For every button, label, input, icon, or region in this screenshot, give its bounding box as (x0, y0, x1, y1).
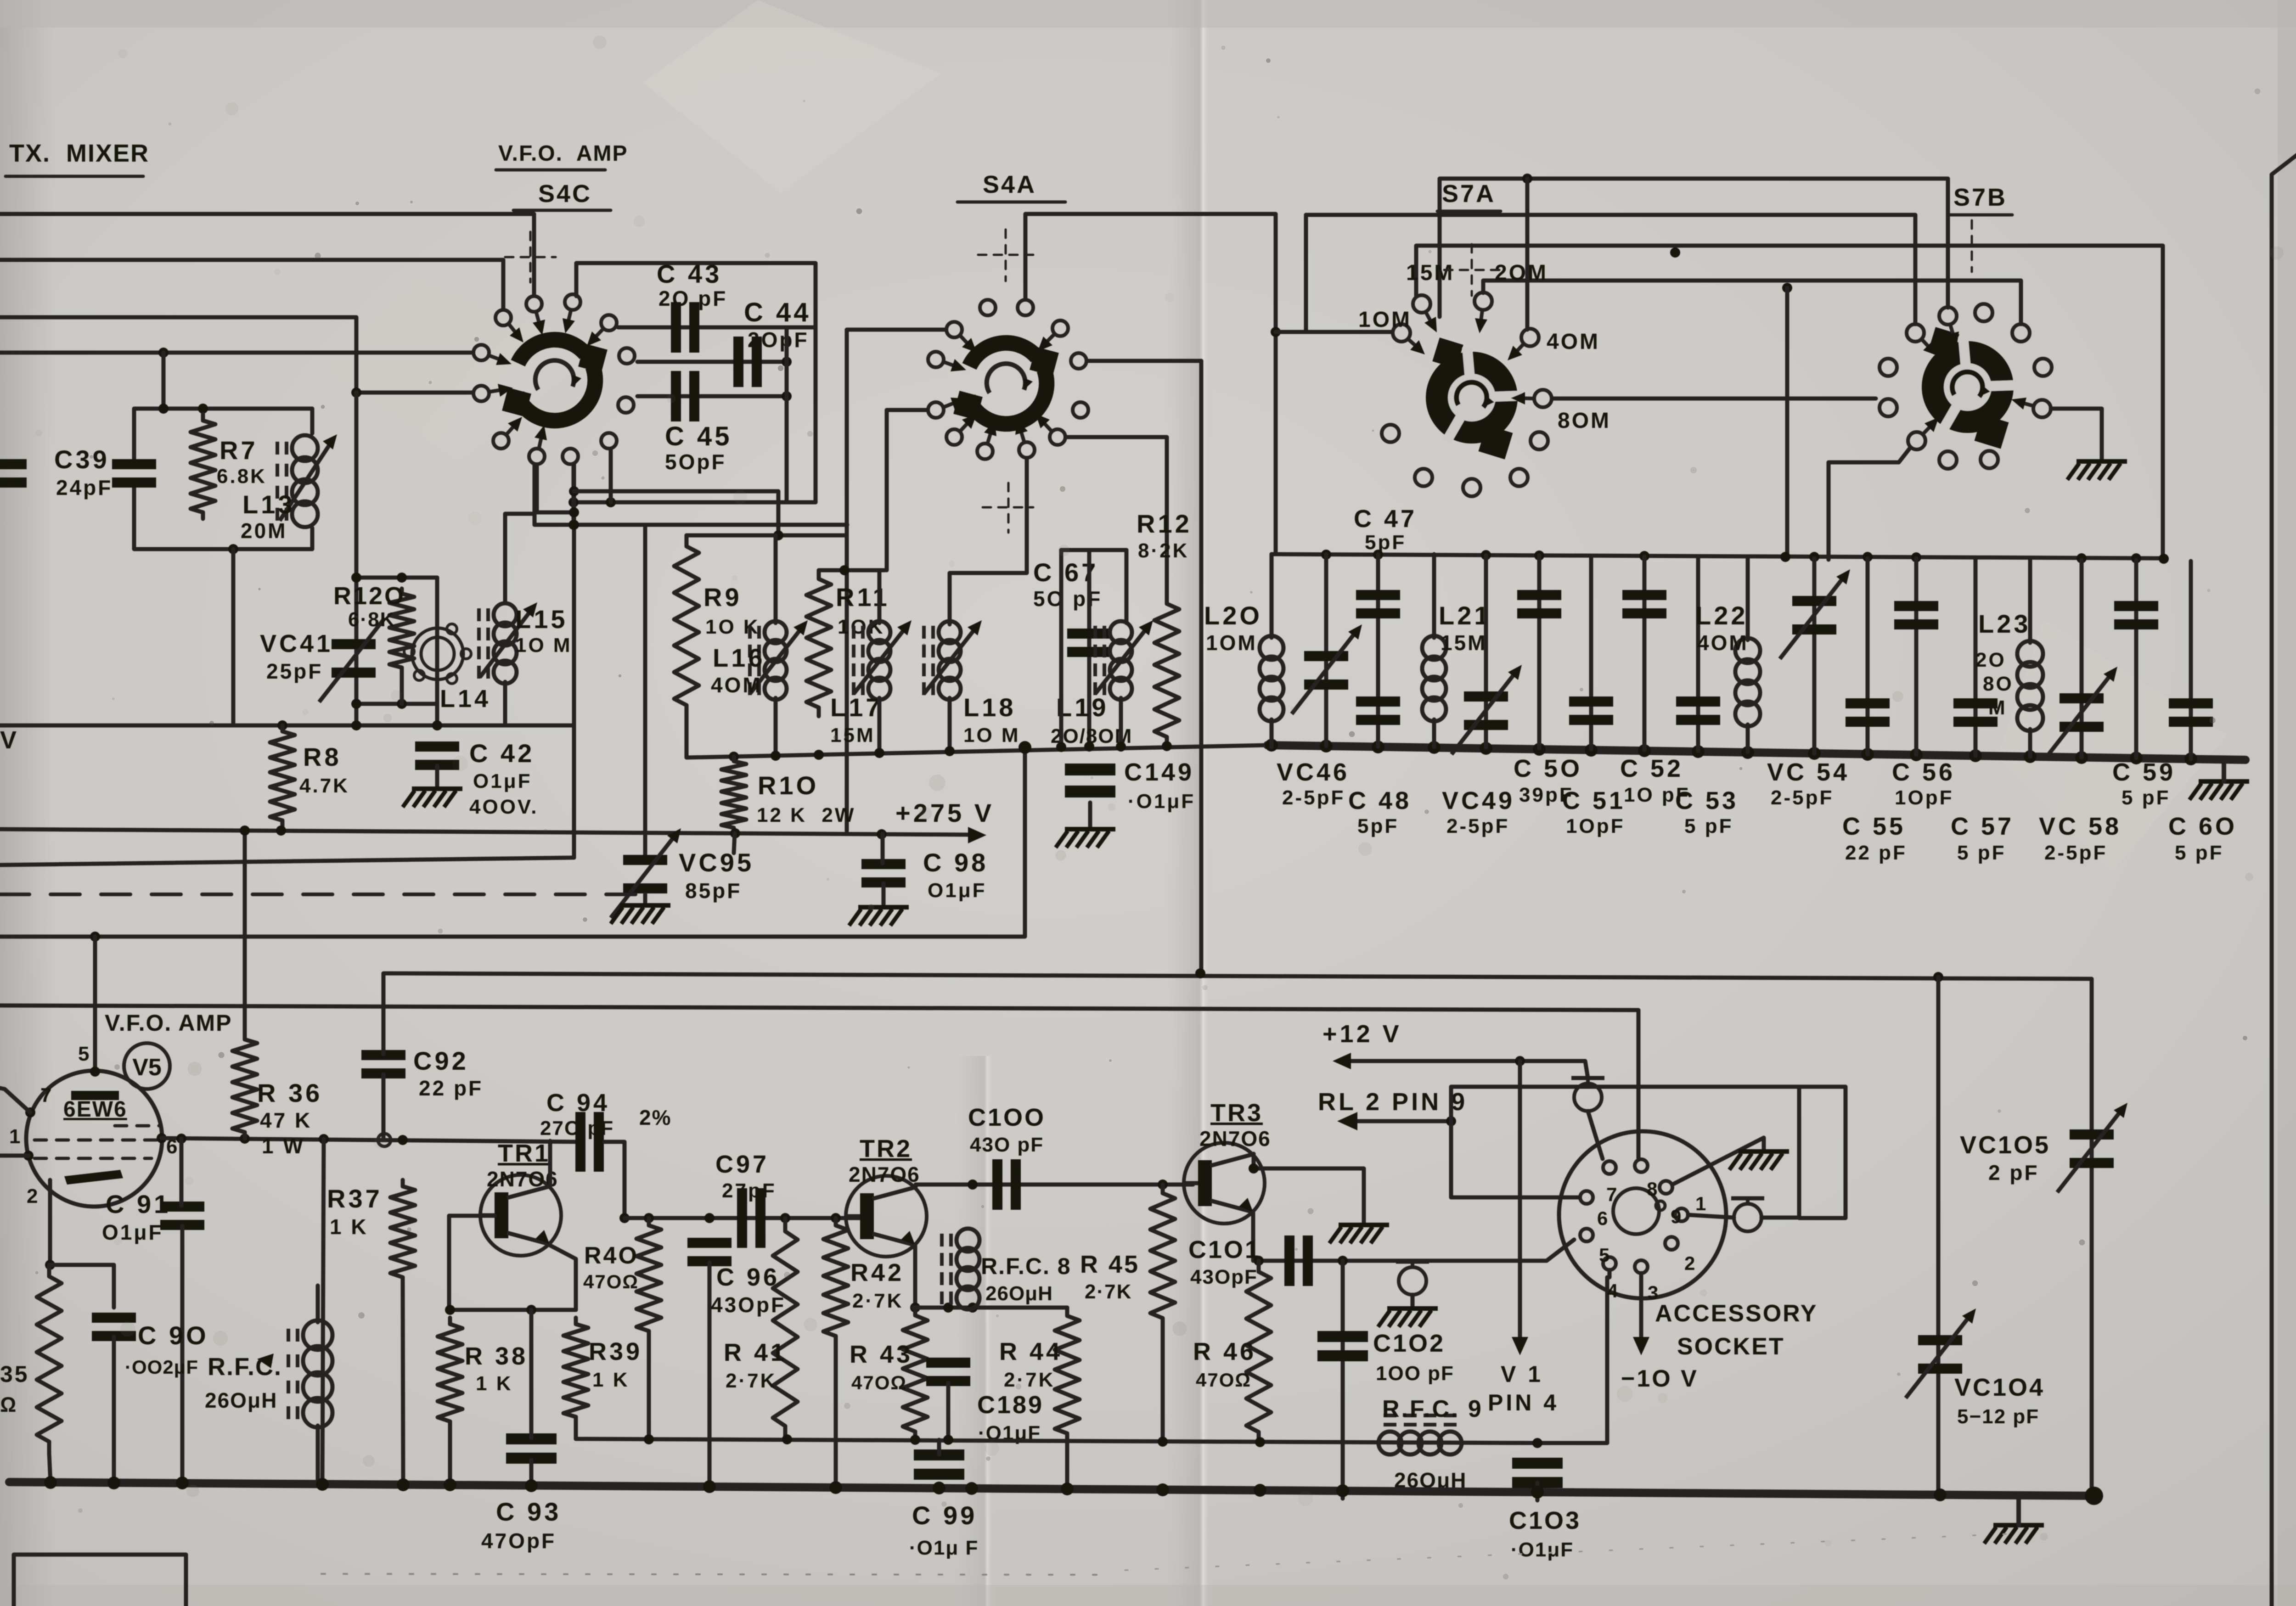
inductor L19 (1095, 620, 1153, 700)
wire S7B gnd spur (2051, 409, 2102, 461)
svg-text:R.F.C. 9: R.F.C. 9 (1382, 1396, 1483, 1422)
wire VC54 leg (1812, 558, 1817, 753)
capacitor C94 (575, 1112, 604, 1172)
wire to S4C left contact (0, 351, 471, 355)
svg-text:4OM: 4OM (1547, 330, 1600, 354)
junction bottom bus (703, 1480, 716, 1493)
svg-text:R42: R42 (850, 1259, 904, 1286)
wire C67 leg (1087, 550, 1092, 746)
junction 1250/1116 (569, 507, 579, 517)
resistor R9 (674, 535, 699, 716)
svg-text:5−12 pF: 5−12 pF (1957, 1405, 2039, 1428)
wire pin3 drop (1639, 1273, 1643, 1345)
wire inductor L21 top (1432, 554, 1436, 638)
svg-text:R.F.C. 8: R.F.C. 8 (981, 1253, 1071, 1279)
svg-text:L18: L18 (963, 693, 1016, 722)
ground under C149 (1056, 829, 1115, 848)
svg-text:·O1μF: ·O1μF (1511, 1539, 1574, 1561)
svg-text:C1O3: C1O3 (1509, 1507, 1581, 1534)
wire long vertical S4A-TR (1199, 361, 1204, 973)
resistor R44 (1055, 1308, 1080, 1442)
resistor R41 (773, 1218, 798, 1439)
tube V5 grid dashes (115, 1124, 161, 1128)
wire bottom bus (9, 1482, 2094, 1496)
svg-text:C 44: C 44 (744, 298, 811, 327)
svg-text:V.F.O. AMP: V.F.O. AMP (498, 141, 628, 166)
capacitor C42 (415, 741, 459, 770)
svg-text:85pF: 85pF (685, 879, 742, 903)
svg-text:C 55: C 55 (1842, 813, 1906, 840)
svg-text:15M: 15M (1441, 631, 1487, 655)
wire pin2 node right (50, 1265, 114, 1308)
junction R11 bus (839, 565, 850, 575)
svg-text:6: 6 (1597, 1207, 1609, 1229)
ground bead pin5 (1378, 1308, 1438, 1327)
wire bead to pin7 (1588, 1111, 1603, 1159)
svg-text:C 51: C 51 (1562, 787, 1626, 814)
svg-text:2-5pF: 2-5pF (1771, 786, 1834, 809)
capacitor C44 (733, 337, 762, 387)
junction C189 top (943, 1303, 953, 1313)
socket pin 7 (1603, 1161, 1616, 1174)
wire bead1 link (1761, 1216, 1799, 1220)
svg-text:TR2: TR2 (860, 1135, 912, 1162)
wire C50 leg (1537, 556, 1542, 748)
capacitor C99 (914, 1449, 964, 1480)
wire interstage rail (625, 1216, 862, 1220)
registration cross S7B (1945, 245, 2000, 247)
wire C189 down (946, 1383, 951, 1439)
arrow +275V (968, 827, 986, 843)
transistor TR1 2N706 (480, 1175, 561, 1256)
svg-text:2·7K: 2·7K (1004, 1369, 1055, 1391)
svg-text:1 K: 1 K (330, 1215, 368, 1239)
wire pin7 lead (0, 1088, 30, 1112)
wire L18 bottom (948, 698, 952, 749)
svg-text:L14: L14 (440, 685, 491, 713)
capacitor C103 (1512, 1458, 1563, 1488)
inductor L13 (277, 434, 337, 527)
svg-text:1OM: 1OM (1206, 631, 1257, 655)
capacitor C39 (112, 459, 156, 488)
svg-text:C 94: C 94 (546, 1089, 610, 1117)
svg-text:2-5pF: 2-5pF (1282, 786, 1345, 809)
svg-text:V 1: V 1 (1501, 1361, 1543, 1387)
junction rail R40 (644, 1434, 654, 1444)
junction box bottom a (568, 497, 579, 507)
svg-text:C189: C189 (977, 1391, 1044, 1419)
svg-text:R 44: R 44 (999, 1338, 1063, 1365)
junction bottom bus (107, 1477, 120, 1489)
svg-text:43O pF: 43O pF (970, 1134, 1044, 1156)
wire down to R120 box (355, 393, 359, 725)
junction bus C42 (432, 720, 442, 730)
socket pin 3 (1635, 1260, 1648, 1273)
svg-text:5 pF: 5 pF (2175, 842, 2223, 864)
wire C42 ground stub (435, 766, 439, 789)
wire C90 down (112, 1337, 116, 1483)
wire TR1 base rail (449, 1214, 495, 1218)
wire VC95 gnd stub (643, 894, 647, 905)
svg-text:5 pF: 5 pF (2122, 786, 2170, 809)
svg-text:7: 7 (40, 1084, 53, 1106)
svg-text:C39: C39 (54, 445, 110, 474)
inductor L20 (1260, 636, 1283, 721)
svg-text:L16: L16 (713, 643, 765, 672)
svg-text:2-5pF: 2-5pF (2044, 842, 2107, 864)
junction left bus (158, 348, 169, 358)
capacitor C52 (1622, 590, 1666, 618)
registration cross S4A (978, 254, 1033, 256)
junction bottom bus (1336, 1484, 1349, 1497)
wire RL2 PIN9 (1355, 1119, 1451, 1123)
underline TX. MIXER (6, 175, 143, 178)
svg-text:47OpF: 47OpF (481, 1529, 556, 1553)
wire inductor L22 top (1746, 556, 1750, 640)
wire S7B low out (1829, 448, 1910, 560)
junction rail2037 pin5 (90, 932, 100, 942)
svg-text:5: 5 (1599, 1244, 1611, 1266)
socket pin 1 (1675, 1208, 1688, 1221)
junction R10 bottom (730, 828, 740, 838)
svg-text:C 59: C 59 (2112, 758, 2176, 786)
wire S7A-S7B top1 (1440, 179, 1948, 317)
junction C94 foot (619, 1213, 630, 1223)
svg-text:5 pF: 5 pF (1957, 842, 2006, 864)
junction bank bus (874, 748, 884, 758)
junction C98 top (877, 829, 887, 839)
junction +12V drop (1515, 1056, 1525, 1066)
R.F.C.7 arrow (257, 1353, 274, 1368)
svg-text:1 W: 1 W (262, 1134, 305, 1158)
arrow RL2 PIN9 (1337, 1112, 1357, 1130)
resistor R36 (232, 1033, 257, 1139)
capacitor at left edge (0, 459, 27, 488)
R.F.C.8 coil (942, 1229, 979, 1309)
wire L19 tank top (1061, 548, 1126, 552)
svg-text:5OpF: 5OpF (665, 450, 726, 474)
wire C51 leg (1589, 556, 1593, 749)
svg-text:22 pF: 22 pF (1845, 842, 1907, 864)
resistor R12 (1154, 595, 1179, 746)
resistor R39 (563, 1318, 588, 1423)
svg-text:C 57: C 57 (1951, 813, 2014, 840)
svg-text:R39: R39 (589, 1338, 642, 1365)
feedthrough bead pin1 (1731, 1198, 1764, 1231)
socket pin 9 (1660, 1181, 1672, 1194)
junction bank bus (1116, 741, 1126, 752)
variable capacitor VC105 (2057, 1103, 2127, 1192)
underline S4A (957, 201, 1065, 204)
svg-text:L15: L15 (515, 605, 568, 634)
svg-text:47OΩ: 47OΩ (851, 1372, 907, 1393)
accessory socket key (1613, 1188, 1665, 1234)
registration cross S7B v (1971, 220, 1973, 272)
inductor L18 (924, 620, 982, 700)
junction filter bottom bus (1480, 742, 1492, 755)
wire C47 C48 leg (1376, 554, 1380, 747)
junction RFC8 tap (968, 1179, 978, 1190)
junction filter bottom bus (1969, 749, 1982, 762)
svg-text:VC46: VC46 (1277, 758, 1350, 786)
resistor R38 (438, 1318, 462, 1428)
svg-text:6·8K: 6·8K (348, 608, 395, 631)
svg-text:8: 8 (1647, 1178, 1659, 1200)
capacitor C102 (1317, 1331, 1368, 1361)
junction rail2120 a (1195, 968, 1205, 978)
junction R43 top (910, 1303, 920, 1313)
wire S7A left drop (1304, 215, 1308, 332)
wire C56 leg (1914, 558, 1919, 755)
svg-text:26OμH: 26OμH (985, 1282, 1053, 1305)
wire rail y2037 (0, 747, 1025, 937)
wire gnd stub bus (2016, 1498, 2021, 1525)
wire stub to R7 box (162, 353, 166, 409)
svg-text:R7: R7 (219, 436, 258, 465)
ground under C42 (403, 789, 462, 807)
junction box top b (198, 404, 208, 414)
svg-text:2: 2 (27, 1185, 39, 1207)
svg-text:25pF: 25pF (266, 659, 323, 683)
wire S7A-S7B top2 (1306, 215, 1915, 324)
svg-text:2·7K: 2·7K (852, 1290, 903, 1312)
wire R36 riser (243, 831, 247, 1033)
junction filter bottom bus (1428, 741, 1441, 754)
junction RL2 vert (1446, 1116, 1456, 1126)
wire inductor L23 bot (2028, 729, 2032, 757)
underline S7B (1949, 213, 2012, 217)
ground TR3 (1329, 1225, 1389, 1243)
resistor R37 (390, 1180, 415, 1283)
wire L14 leg (435, 578, 439, 725)
wire L15 bottom (503, 682, 507, 725)
junction bottom bus (525, 1479, 538, 1492)
resistor R46 (1246, 1261, 1271, 1443)
resistor R8 (270, 725, 295, 826)
junction C92 circle (378, 1134, 391, 1146)
underline S4C (513, 209, 611, 212)
junction 1250/1070 (569, 486, 579, 496)
feedthrough bead pin5 (1396, 1262, 1429, 1295)
capacitor C47 (1356, 590, 1400, 618)
wire C45 row (637, 394, 787, 399)
coil former L14 (404, 624, 471, 684)
registration cross S7A v (1471, 244, 1473, 296)
svg-text:2N7O6: 2N7O6 (849, 1162, 920, 1186)
capacitor C96 (687, 1238, 732, 1266)
junction box top a (158, 404, 169, 414)
wire inductor L20 bot (1270, 719, 1274, 747)
svg-text:C92: C92 (413, 1046, 469, 1075)
svg-text:12 K 2W: 12 K 2W (757, 804, 855, 826)
svg-text:C 42: C 42 (469, 739, 535, 768)
junction x705 tap (319, 1134, 329, 1144)
junction bottom bus (44, 1476, 57, 1489)
junction R120 top (397, 573, 407, 583)
svg-text:C1O2: C1O2 (1373, 1330, 1445, 1357)
registration cross S4A lowv (1007, 483, 1010, 533)
junction C45 right (782, 391, 792, 401)
svg-text:C 6O: C 6O (2168, 813, 2237, 840)
junction C93 top (526, 1305, 536, 1315)
svg-text:S7A: S7A (1442, 180, 1496, 208)
wire pin9 gnd (1672, 1138, 1764, 1185)
junction R36 plate (240, 825, 250, 836)
wire box bottom inner (571, 500, 816, 505)
svg-text:47OΩ: 47OΩ (583, 1271, 639, 1292)
svg-text:VC 54: VC 54 (1767, 758, 1850, 786)
wire heater line (0, 858, 574, 865)
registration cross S4A low (983, 506, 1033, 509)
wire C99 top (937, 1440, 941, 1454)
wire S4A right to L18 (950, 459, 1027, 624)
wire RFC7 bottom (316, 1426, 320, 1484)
svg-text:2·7K: 2·7K (726, 1370, 777, 1392)
capacitor C100 (992, 1159, 1021, 1210)
svg-text:4OOV.: 4OOV. (469, 796, 538, 818)
junction filter top bus (1639, 551, 1649, 561)
junction top1 (1522, 174, 1532, 184)
svg-text:RL 2 PIN 9: RL 2 PIN 9 (1318, 1088, 1468, 1116)
wire contact drop a (572, 465, 576, 525)
svg-text:C 93: C 93 (496, 1497, 561, 1526)
svg-text:R12O: R12O (333, 582, 405, 610)
junction filter top bus (1534, 550, 1544, 561)
R.F.C.7 coil (288, 1320, 332, 1427)
wire R42 bottom (834, 1343, 838, 1491)
wire R120 box top (356, 576, 437, 580)
socket pin 4 (1603, 1257, 1616, 1270)
capacitor C93 (506, 1433, 557, 1464)
resistor R43 (903, 1308, 928, 1439)
wire box top C43 (576, 263, 816, 502)
wire R35 bottom (49, 1453, 51, 1482)
junction pin2 node (45, 1260, 55, 1270)
ground under VC95 (611, 905, 670, 924)
junction bottom bus (176, 1477, 189, 1489)
capacitor C57 (1953, 698, 1998, 727)
wire C53 leg (1696, 557, 1700, 751)
svg-text:4OM: 4OM (1697, 631, 1749, 655)
junction R9 bus (773, 530, 783, 540)
wire emitter rail (449, 1308, 576, 1312)
rotary switch S4A wafer (928, 300, 1088, 459)
junction filter bottom bus (1692, 745, 1705, 758)
junction bank bus (1056, 742, 1066, 752)
svg-text:4OM: 4OM (711, 673, 762, 697)
svg-text:R11: R11 (836, 583, 890, 612)
junction y627 (1782, 283, 1792, 293)
svg-text:1: 1 (9, 1125, 22, 1148)
inductor L16 (750, 620, 808, 700)
junction C102 tap (1338, 1256, 1348, 1266)
junction filter top bus (1481, 550, 1491, 560)
wire R37 bottom (403, 1283, 403, 1484)
svg-text:V.F.O. AMP: V.F.O. AMP (105, 1010, 232, 1036)
ground bottom bus (1984, 1525, 2044, 1544)
svg-text:·OO2μF: ·OO2μF (125, 1356, 198, 1378)
junction box bottom (228, 544, 238, 554)
wire C94 right down (604, 1142, 625, 1218)
wire inductor L22 bot (1746, 724, 1750, 752)
svg-text:R 46: R 46 (1193, 1338, 1256, 1365)
svg-text:SOCKET: SOCKET (1677, 1333, 1785, 1360)
svg-text:V5: V5 (132, 1054, 162, 1081)
svg-text:1OO pF: 1OO pF (1376, 1362, 1454, 1385)
wire R120 lead (400, 673, 404, 704)
svg-text:5O pF: 5O pF (1033, 587, 1102, 611)
svg-text:VC41: VC41 (260, 630, 333, 657)
capacitor C55 (1846, 698, 1890, 727)
wire VC95 riser (643, 525, 647, 857)
wire L19 right leg (1125, 550, 1129, 623)
svg-text:V: V (0, 726, 18, 754)
wire S4A contact to R11 bus (887, 410, 927, 570)
junction filter bottom bus (2184, 752, 2197, 765)
wire gnd stub filter (2222, 760, 2226, 781)
wire VC46 leg (1324, 554, 1328, 746)
wire C44 row (637, 360, 787, 364)
capacitor C67 (1067, 629, 1111, 657)
svg-text:43OpF: 43OpF (711, 1293, 786, 1317)
svg-text:R12: R12 (1137, 509, 1192, 538)
resistor R11 (806, 570, 831, 716)
wire x705 to bus (322, 1139, 324, 1484)
junction filter top bus (2131, 553, 2141, 563)
junction pin5 entry (90, 1067, 100, 1077)
wire C92 bottom (382, 1074, 386, 1140)
wire inductor L21 bot (1432, 719, 1436, 747)
wire L17 top (878, 570, 882, 623)
svg-text:8O: 8O (1983, 673, 2014, 695)
wire VC49 leg (1484, 556, 1488, 747)
wire to S4C contact 2 (0, 260, 503, 309)
wire dashed rail (0, 893, 645, 896)
junction filter top bus (1780, 552, 1790, 562)
junction filter bottom bus (1861, 748, 1874, 761)
junction R45 tap (1158, 1179, 1168, 1190)
junction filter top bus (1321, 550, 1331, 560)
svg-text:2·7K: 2·7K (1085, 1280, 1132, 1303)
wire C91 down (180, 1226, 185, 1484)
junction bottom bus (316, 1478, 329, 1491)
svg-text:5pF: 5pF (1365, 531, 1406, 554)
tube V5 cathode (64, 1170, 123, 1185)
junction filter bottom bus (1638, 744, 1651, 757)
wire emitter rail TR2 (913, 1306, 1067, 1310)
wire box to bus (231, 549, 236, 725)
resistor R40 (636, 1218, 661, 1338)
svg-text:L17: L17 (830, 693, 883, 722)
svg-text:R37: R37 (327, 1184, 383, 1213)
wire C98 gnd stub (882, 883, 886, 907)
wire socket riser (1451, 1087, 1799, 1197)
wire C92 top (382, 973, 386, 1054)
junction bus L14box (432, 720, 442, 730)
svg-text:TR3: TR3 (1210, 1099, 1263, 1127)
wire C149 ground stub (1088, 803, 1092, 829)
svg-text:VC95: VC95 (679, 848, 754, 877)
svg-text:C 52: C 52 (1620, 755, 1683, 782)
socket pin 2 (1665, 1237, 1678, 1250)
registration cross S7A (1444, 269, 1499, 271)
svg-text:C 91: C 91 (106, 1190, 171, 1219)
wire RFC7 top (316, 1286, 320, 1322)
wire bead5 gnd (1411, 1295, 1415, 1308)
variable capacitor VC54 (1780, 569, 1850, 659)
junction at 775/855 (351, 387, 361, 398)
junction pin7 (25, 1107, 35, 1117)
